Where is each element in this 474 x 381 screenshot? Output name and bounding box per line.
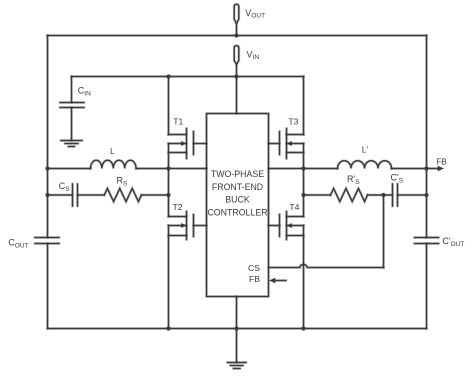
wire phase2 to R'S xyxy=(304,194,331,196)
svg-text:FB: FB xyxy=(249,274,260,284)
svg-text:C'OUT: C'OUT xyxy=(442,236,464,248)
svg-text:CS: CS xyxy=(248,263,260,273)
svg-text:FRONT-END: FRONT-END xyxy=(212,182,263,192)
svg-text:T2: T2 xyxy=(173,202,183,212)
wire RS to phase1 xyxy=(141,194,168,196)
svg-text:L: L xyxy=(110,146,115,156)
wire VIN to controller top xyxy=(236,77,238,114)
transistor T3 xyxy=(269,129,304,159)
resistor R'S xyxy=(331,188,368,201)
wire controller bottom to ground rail xyxy=(236,297,238,329)
wire T1 drain drop xyxy=(168,77,170,135)
wire R'S to C'S xyxy=(368,194,393,196)
svg-text:CS: CS xyxy=(59,181,71,193)
node CS tap xyxy=(381,193,385,197)
inductor L xyxy=(91,160,137,168)
svg-text:VOUT: VOUT xyxy=(245,8,265,20)
node phase1 / L xyxy=(166,166,170,170)
ground GND2 main xyxy=(228,329,247,369)
node right rail / C'S xyxy=(424,193,428,197)
node VIN junction xyxy=(234,74,238,78)
wire phase1 row left xyxy=(48,168,91,170)
wire VIN rail xyxy=(72,76,304,78)
node right rail / L' xyxy=(424,166,428,170)
capacitor C'S xyxy=(393,184,398,206)
capacitor CIN xyxy=(60,77,84,141)
node left rail / CS xyxy=(45,193,49,197)
svg-text:T1: T1 xyxy=(173,117,183,127)
svg-text:CONTROLLER: CONTROLLER xyxy=(207,207,267,217)
wire CS to RS xyxy=(78,194,105,196)
node VOUT junction xyxy=(234,33,238,37)
node phase2 / L' xyxy=(301,166,305,170)
node ground rail / T4 xyxy=(301,326,305,330)
resistor RS xyxy=(104,188,141,201)
node phase1 / RS xyxy=(166,193,170,197)
svg-text:BUCK: BUCK xyxy=(225,194,250,204)
node phase2 / R'S xyxy=(301,193,305,197)
wire T3 drain drop xyxy=(303,77,305,135)
wire ground bottom rail xyxy=(48,328,427,330)
wire VOUT top rail xyxy=(48,35,427,37)
transistor T1 xyxy=(169,129,207,159)
node T1 drain on VIN rail xyxy=(166,74,170,78)
svg-text:RS: RS xyxy=(117,176,129,188)
wire inductor L to box xyxy=(136,168,206,170)
svg-text:FB: FB xyxy=(436,158,447,167)
wire left VOUT edge upper xyxy=(47,36,49,238)
wire CS pin row with hop over T4 column xyxy=(269,265,384,268)
transistor T2 xyxy=(169,212,207,240)
svg-text:C'S: C'S xyxy=(391,173,404,185)
terminal VIN xyxy=(234,46,239,77)
wire T4 source to ground rail xyxy=(303,226,305,329)
wire phase2 row box to L' xyxy=(269,168,338,170)
capacitor C'OUT xyxy=(415,238,439,244)
wire T2 source to ground rail xyxy=(168,226,170,329)
node left rail / L xyxy=(45,166,49,170)
wire left phase column xyxy=(168,144,170,217)
node ground rail / T2 xyxy=(166,326,170,330)
pin FB output arrow xyxy=(427,166,445,171)
svg-text:TWO-PHASE: TWO-PHASE xyxy=(211,169,264,179)
svg-text:T3: T3 xyxy=(288,117,298,127)
capacitor CS xyxy=(73,184,78,206)
wire CS row left xyxy=(48,194,73,196)
pin FB input arrow xyxy=(269,278,286,283)
wire L' to right rail xyxy=(392,168,427,170)
svg-text:VIN: VIN xyxy=(247,49,260,61)
svg-text:T4: T4 xyxy=(289,202,299,212)
svg-text:R'S: R'S xyxy=(347,174,360,186)
svg-text:L': L' xyxy=(362,145,369,155)
node ground rail / controller xyxy=(234,326,238,330)
svg-text:CIN: CIN xyxy=(78,86,91,98)
terminal VOUT xyxy=(234,4,239,35)
wire CS tap vertical xyxy=(383,195,385,268)
wire right VOUT edge upper xyxy=(426,36,428,238)
ground GND1 for CIN xyxy=(61,141,82,147)
wire right phase column xyxy=(303,144,305,217)
transistor T4 xyxy=(269,212,304,240)
wire C'S to right rail xyxy=(398,194,427,196)
label U1 text xyxy=(207,169,267,217)
svg-text:COUT: COUT xyxy=(8,238,28,250)
wire left VOUT edge lower xyxy=(47,244,49,329)
controller U1 xyxy=(207,114,269,297)
wire right VOUT edge lower xyxy=(426,244,428,329)
inductor L' xyxy=(338,161,392,169)
capacitor COUT xyxy=(35,238,59,244)
